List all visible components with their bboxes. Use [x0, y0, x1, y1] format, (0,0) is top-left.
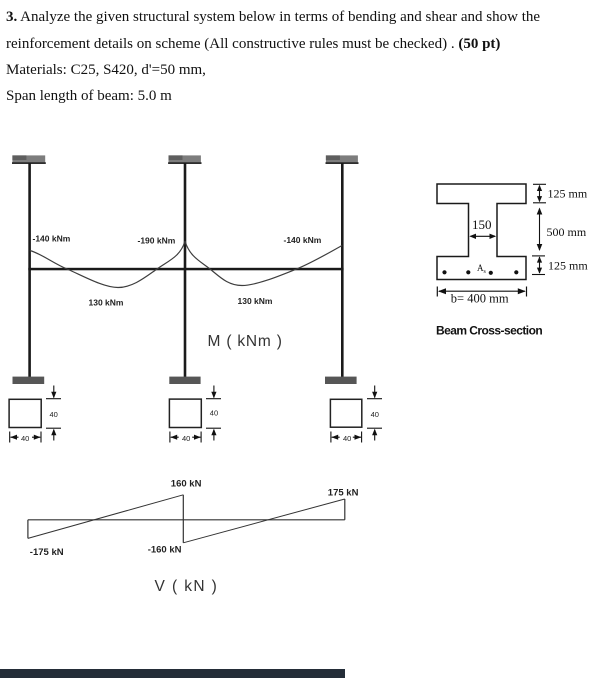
svg-text:Beam Cross-section: Beam Cross-section [436, 324, 542, 338]
middle square horizontal dim 40 [170, 432, 201, 443]
shear drop at middle [182, 495, 184, 543]
column cross-section square left [9, 399, 41, 427]
svg-text:125 mm: 125 mm [548, 259, 588, 273]
moment curve span 2 [185, 241, 342, 286]
beam cross-section I-shape outline [437, 184, 526, 280]
middle square vertical dim 40 [206, 386, 221, 441]
svg-text:160 kN: 160 kN [171, 479, 202, 490]
right square vertical dim 40 [367, 386, 382, 441]
b=400 dimension [437, 287, 526, 297]
shear right vertical [344, 499, 346, 520]
svg-text:40: 40 [182, 434, 190, 443]
svg-text:40: 40 [21, 434, 29, 443]
svg-text:-190 kNm: -190 kNm [138, 236, 176, 246]
span length line [6, 88, 172, 105]
column left [28, 163, 31, 377]
top support left [12, 155, 46, 164]
svg-text:-140 kNm: -140 kNm [284, 235, 322, 245]
shear diagonal span 1 [28, 495, 183, 539]
svg-text:40: 40 [50, 410, 58, 419]
right dimension line 125mm bottom [532, 256, 545, 275]
svg-text:130 kNm: 130 kNm [89, 297, 124, 307]
svg-text:-140 kNm: -140 kNm [33, 234, 71, 244]
column cross-section square right [330, 399, 361, 427]
svg-text:500 mm: 500 mm [547, 225, 587, 239]
moment curve span 1 [30, 241, 185, 288]
svg-text:150: 150 [472, 217, 492, 232]
rebar dot 3 [489, 271, 493, 275]
svg-text:V ( kN ): V ( kN ) [155, 578, 219, 595]
rebar dot 1 [442, 270, 446, 274]
right dimension line 500mm [537, 208, 543, 252]
top support middle [168, 155, 201, 164]
svg-text:b= 400 mm: b= 400 mm [451, 292, 509, 306]
shear axis [28, 519, 345, 521]
column cross-section square middle [169, 399, 201, 427]
bottom support right [325, 377, 357, 384]
svg-text:130 kNm: 130 kNm [238, 296, 273, 306]
problem statement line 1 [6, 9, 540, 26]
left square vertical dim 40 [46, 386, 61, 441]
svg-text:-160 kN: -160 kN [148, 545, 182, 556]
bottom dark bar [0, 669, 345, 678]
bottom support middle [169, 377, 200, 384]
svg-text:175 kN: 175 kN [328, 488, 359, 499]
svg-text:M ( kNm ): M ( kNm ) [208, 333, 283, 350]
svg-text:40: 40 [371, 410, 379, 419]
rebar dot 4 [514, 270, 518, 274]
bottom support left [13, 377, 45, 384]
svg-text:-175 kN: -175 kN [30, 547, 64, 558]
right square horizontal dim 40 [331, 432, 362, 443]
svg-text:40: 40 [210, 409, 218, 418]
beam [28, 268, 343, 271]
svg-text:40: 40 [343, 434, 351, 443]
column middle [184, 163, 187, 377]
rebar dot 2 [466, 270, 470, 274]
problem statement line 2 [6, 36, 500, 53]
left square horizontal dim 40 [10, 432, 41, 443]
materials line [6, 62, 206, 79]
right dimension line 125mm top [533, 184, 546, 203]
svg-text:125 mm: 125 mm [548, 187, 588, 201]
column right [341, 163, 344, 377]
shear left vertical [27, 520, 29, 539]
shear diagonal span 2 [183, 499, 344, 543]
web width arrow [469, 234, 496, 239]
top support right [326, 155, 359, 164]
